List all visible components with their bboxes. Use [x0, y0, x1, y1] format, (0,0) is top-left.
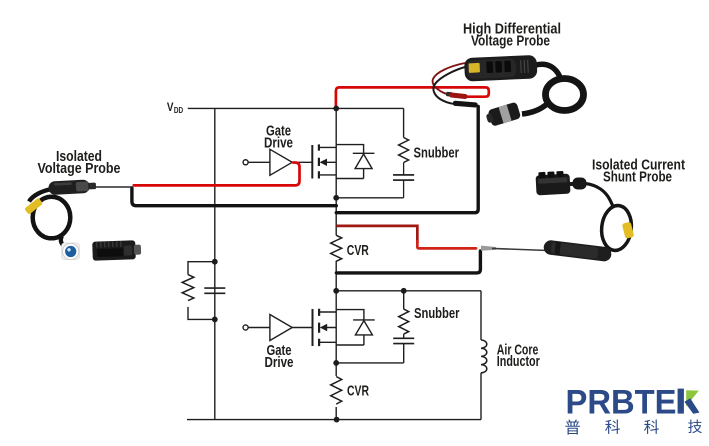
- svg-text:Voltage Probe: Voltage Probe: [471, 33, 550, 50]
- svg-text:CVR: CVR: [347, 383, 369, 400]
- svg-text:CVR: CVR: [347, 242, 369, 259]
- svg-text:Shunt Probe: Shunt Probe: [603, 169, 672, 186]
- svg-text:PRBTE: PRBTE: [566, 383, 677, 421]
- svg-text:Snubber: Snubber: [414, 144, 460, 161]
- svg-text:Voltage Probe: Voltage Probe: [38, 160, 121, 177]
- svg-text:DD: DD: [174, 105, 183, 115]
- svg-text:Snubber: Snubber: [414, 305, 460, 322]
- svg-text:Inductor: Inductor: [497, 353, 540, 370]
- svg-text:Drive: Drive: [264, 134, 293, 151]
- svg-text:Drive: Drive: [265, 354, 294, 371]
